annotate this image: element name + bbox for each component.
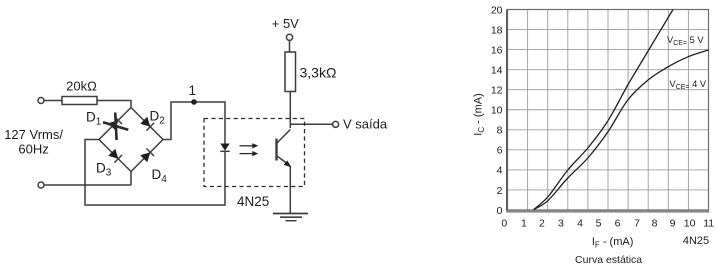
wire top-terminal to R1 [44,100,62,102]
label D1 [86,110,102,128]
label V saida [343,116,388,131]
svg-text:60Hz: 60Hz [18,141,48,156]
defect cross over D1 [103,113,128,141]
caption Curva estatica [575,254,642,266]
terminal top input [38,98,44,104]
svg-text:5: 5 [596,218,602,230]
y axis title IC-(mA) [473,93,486,135]
wire bridge left vertex down to LED cathode return [85,140,225,206]
svg-text:Curva estática: Curva estática [575,254,642,266]
svg-text:4: 4 [577,218,583,230]
plot border / axes [506,10,709,212]
x axis title IF-(mA) [592,236,634,249]
terminal bottom input [38,182,44,188]
svg-text:127 Vrms/: 127 Vrms/ [4,127,63,142]
x tick labels [501,218,714,230]
svg-text:0: 0 [497,205,503,217]
svg-text:+ 5V: + 5V [272,16,299,31]
svg-text:12: 12 [491,85,503,97]
node 1 junction dot [191,99,197,105]
svg-text:8: 8 [652,218,658,230]
label VCE=4V [670,79,707,91]
svg-text:14: 14 [491,65,503,77]
svg-text:2: 2 [497,185,503,197]
label 4N25 (chart) [683,235,709,247]
optocoupler 4N25 dashed box [204,119,305,187]
curve VCE=4V [534,50,709,210]
svg-text:8: 8 [497,125,503,137]
LED of optocoupler [220,144,229,152]
diode D1 (crossed out) [108,116,122,130]
svg-text:4: 4 [497,165,503,177]
wire emitter to ground [289,166,291,214]
svg-text:3,3kΩ: 3,3kΩ [300,65,337,81]
wire pull-up: +5V circle to resistor and down to collector junction [289,41,292,129]
svg-text:1: 1 [521,218,527,230]
y tick labels [491,4,503,217]
diode D2 [140,117,154,131]
svg-text:6: 6 [497,145,503,157]
label 4N25 (schematic) [237,194,269,209]
label 20k [66,78,97,93]
bridge diamond arms D1-D4 [99,108,163,172]
svg-text:3: 3 [558,218,564,230]
wire R1 to bridge top vertex [97,101,131,108]
svg-text:2: 2 [539,218,545,230]
svg-text:9: 9 [670,218,676,230]
svg-text:4N25: 4N25 [237,194,269,209]
svg-text:1: 1 [189,83,197,98]
phototransistor Q1 [277,130,292,168]
grid [508,10,709,211]
label 3,3k [300,65,337,81]
node 1 label [189,83,197,98]
label D3 [96,161,112,179]
light emission arrows [240,143,259,156]
ground [273,214,308,221]
curve VCE=5V [534,10,673,210]
label VCE=5V [667,35,704,47]
V saida output terminal [333,121,339,127]
diode D3 [108,149,122,163]
svg-text:16: 16 [491,44,503,56]
svg-text:V saída: V saída [343,116,388,131]
svg-text:7: 7 [634,218,640,230]
svg-text:0: 0 [501,218,507,230]
resistor 3,3k [285,52,296,92]
label 127 Vrms / 60Hz [4,127,63,157]
svg-text:18: 18 [491,24,503,36]
+5V supply terminal [286,34,292,40]
svg-text:10: 10 [491,105,503,117]
label D2 [150,109,166,127]
label D4 [152,167,168,185]
svg-text:11: 11 [703,218,714,230]
svg-text:10: 10 [684,218,696,230]
svg-text:6: 6 [615,218,621,230]
wire V saida output [290,123,332,125]
diode D4 [140,148,154,162]
svg-text:20: 20 [491,4,503,16]
wire bottom-terminal to bridge bottom vertex [44,172,131,186]
svg-text:20kΩ: 20kΩ [66,78,97,93]
wire bridge right vertex up to node 1 and LED anode [163,102,225,144]
label +5V [272,16,299,31]
svg-text:4N25: 4N25 [683,235,709,247]
resistor R 20k [62,97,97,105]
